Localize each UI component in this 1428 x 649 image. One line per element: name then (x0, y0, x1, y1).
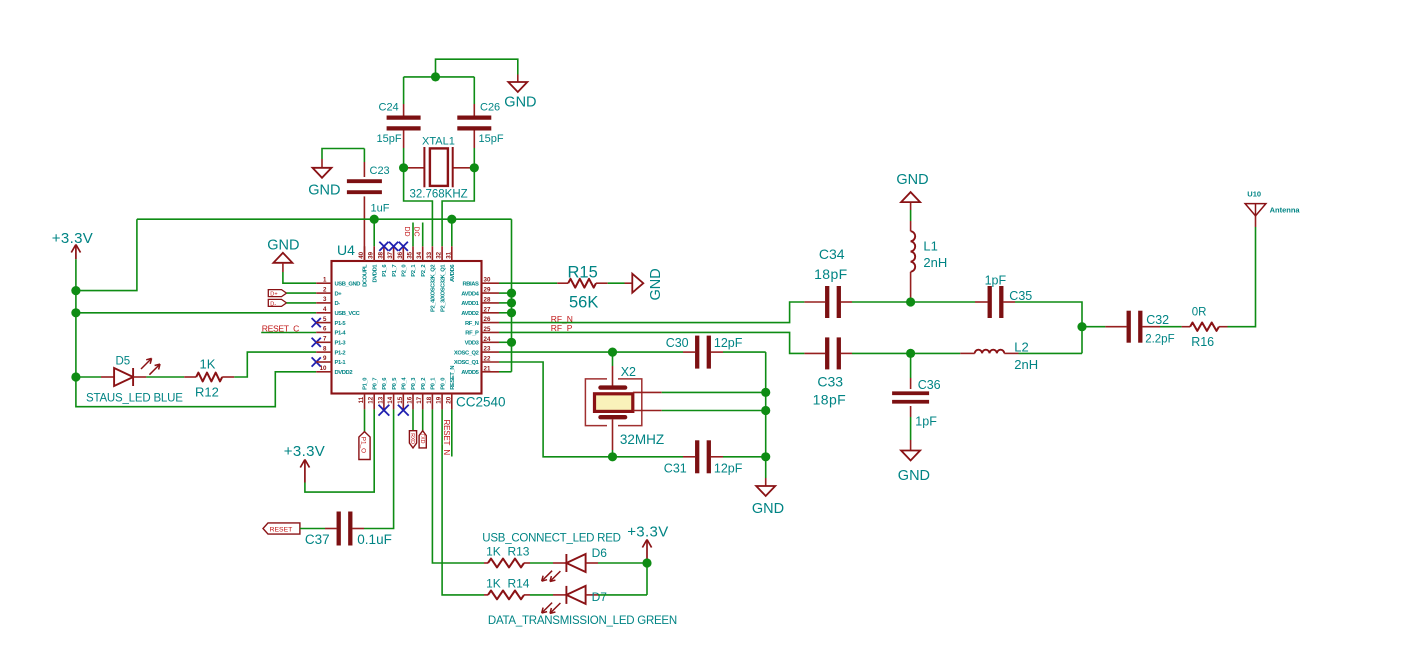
svg-text:P1-4: P1-4 (335, 331, 347, 337)
junction bus pin39 (370, 215, 379, 224)
resistor R12 (146, 357, 234, 400)
svg-text:P1-5: P1-5 (335, 321, 347, 327)
svg-text:VDD3: VDD3 (465, 341, 480, 347)
svg-text:18: 18 (426, 396, 433, 403)
svg-text:2nH: 2nH (923, 255, 947, 270)
svg-text:5: 5 (323, 316, 327, 323)
svg-text:P2_1: P2_1 (411, 264, 417, 277)
label RESET_C (261, 323, 316, 333)
svg-text:1uF: 1uF (371, 203, 390, 215)
svg-text:31: 31 (445, 251, 452, 258)
inductor L2 (911, 339, 1039, 372)
ic U4 pins and pin labels (316, 246, 499, 409)
junction pin27 (507, 308, 516, 317)
svg-text:9: 9 (323, 355, 327, 362)
svg-text:P0_3: P0_3 (411, 377, 417, 390)
capacitor C30 (666, 336, 743, 369)
svg-text:RF_P: RF_P (465, 331, 479, 337)
svg-text:USB_CONNECT_LED RED: USB_CONNECT_LED RED (482, 533, 620, 545)
svg-text:1K: 1K (200, 357, 216, 372)
svg-text:35: 35 (407, 251, 414, 258)
wire pin23 to C30 (499, 351, 683, 353)
junction pin24 (507, 338, 516, 347)
svg-text:34: 34 (416, 251, 423, 258)
no-connect pin5 (312, 318, 321, 327)
svg-text:GND: GND (896, 172, 928, 188)
svg-text:+3.3V: +3.3V (284, 443, 325, 460)
diode D7 data LED (488, 586, 677, 627)
wire XTAL right to pin32 (442, 168, 474, 247)
label D+ (268, 290, 316, 298)
wire XTAL top loop to GND (436, 59, 518, 77)
svg-text:XOSC_Q1: XOSC_Q1 (454, 360, 480, 366)
svg-text:19: 19 (436, 396, 443, 403)
svg-text:P2_2: P2_2 (421, 265, 427, 277)
wire C35 to node3 (1015, 302, 1082, 353)
svg-text:D6: D6 (592, 546, 608, 560)
power +3.3V pin12 (284, 409, 374, 492)
svg-text:USB_GND: USB_GND (335, 281, 361, 287)
svg-text:32.768KHZ: 32.768KHZ (410, 189, 468, 201)
junction node3 (1077, 322, 1086, 331)
svg-text:1: 1 (323, 276, 327, 283)
svg-text:39: 39 (368, 251, 375, 258)
svg-text:11: 11 (358, 396, 365, 403)
resistor R14 (484, 577, 530, 600)
svg-text:32MHZ: 32MHZ (620, 432, 664, 447)
svg-text:+3.3V: +3.3V (52, 230, 93, 247)
svg-text:P0_4: P0_4 (402, 377, 408, 390)
svg-text:RF_N: RF_N (465, 321, 479, 327)
wire C37 to pin14 (364, 409, 394, 528)
svg-text:40: 40 (358, 251, 365, 258)
wire C34 to node1 (852, 301, 911, 303)
wire C30 to gnd drop (723, 351, 766, 353)
svg-text:30: 30 (484, 277, 491, 284)
wire +3.3V rail left vertical (75, 259, 77, 377)
capacitor C31 (664, 440, 743, 475)
wire C32 to R16 (1160, 326, 1182, 328)
capacitor C35 (911, 273, 1033, 318)
svg-text:28: 28 (484, 296, 491, 303)
capacitor C37 (305, 512, 392, 548)
no-connect pin38 (379, 242, 388, 251)
ground GND above L1 (896, 172, 928, 202)
svg-text:8: 8 (323, 345, 327, 352)
svg-text:RESET_N: RESET_N (450, 366, 456, 390)
svg-text:C32: C32 (1146, 313, 1169, 327)
diode D6 usb connect LED (482, 533, 620, 582)
svg-text:R12: R12 (195, 385, 219, 400)
svg-text:21: 21 (484, 365, 491, 372)
svg-text:24: 24 (484, 336, 491, 343)
svg-text:C23: C23 (370, 165, 390, 177)
svg-text:X2: X2 (621, 365, 636, 379)
wire pin19 to R14 (442, 409, 484, 595)
label RF_N (551, 314, 573, 324)
svg-text:15pF: 15pF (479, 133, 504, 145)
svg-text:GND: GND (648, 268, 664, 300)
svg-text:RF_P: RF_P (551, 323, 573, 333)
svg-text:L2: L2 (1014, 339, 1028, 354)
no-connect pin37 (389, 242, 398, 251)
wire RF_P pin25 (499, 332, 804, 353)
crystal X2 (585, 352, 664, 457)
wire pin18 to R13 (432, 409, 484, 563)
resistor R16 (1182, 306, 1228, 349)
svg-text:1K R13: 1K R13 (486, 545, 530, 559)
svg-text:C30: C30 (666, 336, 689, 350)
svg-text:32: 32 (436, 251, 443, 258)
wire C24-C26 top link (404, 76, 475, 78)
svg-text:37: 37 (387, 251, 394, 258)
wire R16 to antenna (1228, 227, 1256, 327)
svg-text:TXD: TXD (419, 433, 425, 444)
svg-text:DC: DC (413, 227, 420, 237)
svg-text:38: 38 (377, 251, 384, 258)
wire R12 to pin8 (234, 352, 316, 377)
ic U4 CC2540 body (332, 242, 506, 410)
svg-text:36: 36 (397, 251, 404, 258)
svg-text:STAUS_LED BLUE: STAUS_LED BLUE (86, 393, 183, 405)
diode D5 status LED (76, 356, 183, 405)
wire R15 to GND (608, 282, 625, 284)
svg-text:22: 22 (484, 356, 491, 363)
wire R14 to D7 (530, 594, 553, 596)
svg-text:RXD: RXD (409, 433, 415, 444)
junction pin28 (507, 298, 516, 307)
svg-text:C26: C26 (480, 102, 500, 114)
svg-text:XTAL1: XTAL1 (422, 136, 455, 148)
svg-text:RESET_N: RESET_N (442, 420, 451, 456)
svg-text:DATA_TRANSMISSION_LED GREEN: DATA_TRANSMISSION_LED GREEN (488, 615, 677, 627)
svg-text:R15: R15 (568, 264, 598, 282)
junction top link (431, 72, 440, 81)
svg-text:XOSC_Q2: XOSC_Q2 (454, 350, 479, 356)
svg-text:L1: L1 (923, 239, 937, 254)
svg-text:D-: D- (335, 301, 341, 307)
svg-text:0.1uF: 0.1uF (357, 532, 392, 547)
svg-text:15pF: 15pF (377, 133, 402, 145)
no-connect pin36 (399, 242, 408, 251)
svg-text:12: 12 (368, 396, 375, 403)
capacitor C33 (804, 337, 852, 407)
power +3.3V LEDs (627, 523, 668, 563)
wire bus to pin31 (451, 219, 453, 246)
svg-text:20: 20 (445, 396, 452, 403)
svg-text:C24: C24 (379, 102, 399, 114)
svg-text:C37: C37 (305, 532, 330, 547)
svg-text:23: 23 (484, 346, 491, 353)
label TXD pin17 (419, 409, 427, 448)
svg-text:4: 4 (323, 306, 327, 313)
ground GND below C36 (898, 440, 930, 484)
svg-text:1pF: 1pF (985, 273, 1007, 287)
svg-text:DD: DD (403, 227, 410, 237)
svg-text:14: 14 (387, 396, 394, 403)
svg-text:RESET: RESET (270, 527, 293, 534)
svg-text:R16: R16 (1191, 335, 1214, 349)
svg-text:P1-3: P1-3 (335, 341, 347, 347)
wire L2 to node3 (1019, 352, 1083, 354)
svg-text:DCOUPL: DCOUPL (363, 264, 369, 287)
capacitor C36 (892, 353, 941, 440)
svg-text:+3.3V: +3.3V (627, 523, 668, 540)
svg-text:18pF: 18pF (813, 392, 847, 408)
svg-text:U10: U10 (1247, 189, 1261, 198)
junction D5 anode (71, 372, 80, 381)
junction LED supply (642, 558, 651, 567)
inductor L1 (911, 202, 948, 302)
svg-text:GND: GND (898, 468, 930, 484)
svg-text:C34: C34 (819, 246, 845, 262)
wire C31 to gnd drop (723, 456, 766, 458)
svg-text:P1_6: P1_6 (382, 264, 388, 277)
svg-text:D5: D5 (116, 356, 131, 368)
svg-text:RBIAS: RBIAS (462, 281, 479, 287)
svg-text:C36: C36 (918, 378, 941, 392)
svg-text:16: 16 (407, 396, 414, 403)
capacitor C34 (804, 246, 852, 318)
svg-text:P0_2: P0_2 (421, 378, 427, 390)
svg-text:D+: D+ (335, 291, 343, 297)
wire R13 to D6 (530, 562, 553, 564)
svg-text:0R: 0R (1192, 306, 1207, 318)
wire LED supply down (646, 563, 648, 595)
svg-text:56K: 56K (569, 294, 598, 312)
wire bus to pin39 (373, 219, 375, 246)
svg-text:Antenna: Antenna (1270, 205, 1301, 214)
svg-text:6: 6 (323, 326, 327, 333)
svg-text:P0_6: P0_6 (382, 377, 388, 390)
svg-text:2: 2 (323, 286, 327, 293)
svg-text:2.2pF: 2.2pF (1145, 334, 1174, 346)
svg-text:15: 15 (397, 396, 404, 403)
junction node2 (906, 349, 915, 358)
resistor R13 (484, 545, 530, 568)
no-connect pin9 (312, 357, 321, 366)
junction bus pin31 (447, 215, 456, 224)
svg-text:DVDD1: DVDD1 (372, 264, 378, 283)
svg-text:AVDD5: AVDD5 (461, 370, 479, 376)
capacitor C26 (457, 77, 504, 168)
svg-text:13: 13 (377, 396, 384, 403)
capacitor C23 (347, 149, 390, 262)
svg-text:P1_0: P1_0 (363, 378, 369, 390)
label P1_O pin11 (359, 409, 370, 459)
label DD on pin35 (403, 223, 413, 247)
junction USB_VCC (71, 308, 80, 317)
wire C33 to node2 (852, 352, 911, 354)
junction XTAL left (399, 163, 408, 172)
svg-text:1K R14: 1K R14 (486, 577, 530, 591)
ground GND below X2 (752, 478, 784, 517)
svg-text:AVDD1: AVDD1 (461, 301, 479, 307)
junction gnd drop a (761, 388, 770, 397)
wire X2 shield bottom to gnd drop (662, 410, 766, 412)
no-connect pin13 (379, 405, 390, 416)
wire D6 to +3.3V (598, 562, 647, 564)
svg-text:DVDD2: DVDD2 (335, 370, 353, 376)
label DC on pin34 (413, 223, 423, 247)
svg-text:GND: GND (504, 95, 536, 111)
ground GND pin1 (267, 238, 316, 284)
label RF_P (551, 323, 573, 333)
crystal XTAL1 (404, 136, 475, 201)
power +3.3V left (52, 230, 93, 259)
svg-text:AVDD2: AVDD2 (461, 311, 478, 317)
svg-text:27: 27 (484, 306, 491, 313)
svg-text:CC2540: CC2540 (456, 395, 506, 410)
svg-text:18pF: 18pF (814, 266, 848, 282)
junction X2 bottom (608, 452, 617, 461)
wire +3.3V to bus riser (76, 219, 137, 290)
svg-text:25: 25 (484, 326, 491, 333)
svg-text:10: 10 (320, 365, 327, 372)
svg-text:29: 29 (484, 287, 491, 294)
wire pin30 to R15 (499, 282, 557, 284)
svg-text:P0_5: P0_5 (392, 377, 398, 390)
svg-text:1pF: 1pF (915, 415, 937, 429)
antenna U10 (1245, 189, 1300, 227)
svg-text:P1-1: P1-1 (335, 360, 347, 366)
wire VDD bus (137, 218, 512, 220)
label RESET_N pin20 (442, 409, 452, 456)
wire RF_N pin26 (499, 302, 804, 323)
wire pin21 to drop (499, 371, 512, 373)
junction X2 top (608, 348, 617, 357)
ground GND left of C23 (308, 149, 364, 199)
svg-text:GND: GND (267, 238, 299, 254)
svg-text:USB_VCC: USB_VCC (335, 311, 361, 317)
svg-text:7: 7 (323, 336, 327, 343)
junction XTAL right (470, 163, 479, 172)
svg-text:26: 26 (484, 316, 491, 323)
svg-text:C33: C33 (817, 374, 843, 390)
wire pin29 to drop (499, 292, 512, 294)
junction node1 (906, 297, 915, 306)
svg-text:D7: D7 (592, 590, 608, 604)
svg-text:C35: C35 (1009, 289, 1032, 303)
label RXD pin16 (409, 409, 417, 448)
wire DVDD2 pin10 loop (76, 372, 316, 407)
ground GND top-right (504, 75, 536, 111)
junction gnd drop c (761, 452, 770, 461)
svg-text:P2_4/XOSC32K_Q2: P2_4/XOSC32K_Q2 (431, 265, 437, 312)
svg-text:U4: U4 (337, 242, 355, 258)
svg-text:P0_1: P0_1 (431, 377, 437, 390)
svg-text:P1_7: P1_7 (392, 265, 398, 277)
junction +3.3V riser (71, 286, 80, 295)
svg-text:P1_O: P1_O (360, 437, 367, 453)
svg-text:P2_0: P2_0 (402, 265, 408, 277)
svg-text:12pF: 12pF (714, 336, 743, 350)
ground GND right of R15 (625, 268, 664, 300)
svg-text:P0_0: P0_0 (440, 378, 446, 390)
svg-text:AVDD6: AVDD6 (450, 264, 456, 282)
svg-text:GND: GND (752, 501, 784, 517)
svg-text:AVDD4: AVDD4 (461, 291, 479, 297)
no-connect pin7 (312, 338, 321, 347)
svg-text:D-: D- (270, 301, 276, 307)
wire D7 to LED supply (598, 594, 647, 596)
wire XTAL left to pin33 (404, 168, 433, 247)
capacitor C24 (377, 77, 421, 168)
svg-text:P1-2: P1-2 (335, 350, 346, 356)
junction gnd drop b (761, 406, 770, 415)
wire pin24 to drop (499, 341, 512, 343)
wire pin28 to drop (499, 302, 512, 304)
svg-text:C31: C31 (664, 461, 687, 475)
label D- (268, 299, 316, 307)
svg-text:2nH: 2nH (1014, 357, 1038, 372)
svg-text:GND: GND (308, 182, 340, 198)
no-connect pin15 (398, 405, 409, 416)
wire bus right drop to AVDD pins (511, 219, 513, 372)
wire pin27 to drop (499, 312, 512, 314)
junction pin29 (507, 289, 516, 298)
svg-text:3: 3 (323, 296, 327, 303)
svg-text:17: 17 (416, 396, 423, 403)
capacitor C32 (1082, 311, 1175, 346)
wire +3.3V to USB_VCC pin4 (76, 312, 316, 314)
wire X2 shield top to gnd drop (662, 391, 766, 393)
wire pin22 to C31 (499, 362, 683, 457)
wire gnd drop vertical (765, 352, 767, 478)
resistor R15 (557, 264, 608, 312)
svg-text:33: 33 (426, 251, 433, 258)
svg-text:12pF: 12pF (714, 461, 743, 475)
svg-text:D+: D+ (270, 292, 277, 298)
svg-text:P0_7: P0_7 (372, 378, 378, 390)
label RESET (263, 523, 325, 534)
svg-text:P2_3/XOSC32K_Q1: P2_3/XOSC32K_Q1 (440, 264, 446, 312)
